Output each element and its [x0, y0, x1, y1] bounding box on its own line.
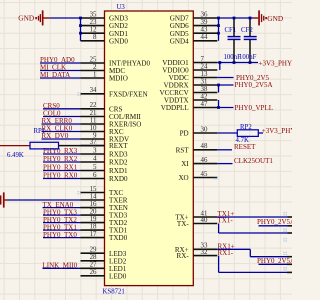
svg-text:12: 12 [90, 27, 97, 34]
ground symbol top-left [35, 10, 49, 25]
svg-text:XO: XO [178, 174, 188, 182]
pin 23 (GND2) left [81, 19, 129, 30]
svg-text:LED0: LED0 [109, 272, 127, 280]
wire RX+ + net label RX1+ [217, 242, 292, 256]
wire VCCRCV tie vertical [217, 84, 220, 93]
pin 35 (GND3) left [81, 11, 129, 22]
wire PD to RP2 [217, 132, 237, 134]
svg-text:38: 38 [201, 86, 208, 93]
svg-text:PHY0_RX0: PHY0_RX0 [43, 172, 78, 180]
wire TX+ + net label TX1+ [217, 210, 292, 218]
wire + net label PHY0_RX3 [43, 147, 81, 155]
pin 33 (RX+) right [175, 243, 217, 254]
svg-text:7: 7 [201, 56, 205, 63]
wire GND to pin 35 [50, 17, 81, 19]
wire GND vertical bus right [218, 18, 220, 41]
svg-text:11: 11 [90, 117, 97, 124]
svg-text:RP2: RP2 [240, 124, 252, 131]
svg-text:48: 48 [201, 143, 208, 150]
wire +3V3_PHY rail (pin 7) [217, 62, 258, 64]
wire XI + net label CLK25OUT1 [217, 157, 273, 165]
svg-text:RX_DV0: RX_DV0 [42, 132, 69, 140]
svg-text:29: 29 [90, 247, 97, 254]
junction dots GND bus right [217, 17, 220, 35]
pin 10 (RXC) left [81, 125, 124, 136]
svg-text:CF1: CF1 [225, 27, 237, 34]
wire + net label CRS0 [43, 102, 81, 110]
IC U3 body (KS8721 PHY) [105, 11, 194, 286]
svg-text:13: 13 [201, 71, 208, 78]
svg-text:45: 45 [201, 171, 208, 178]
svg-text:100nF: 100nF [239, 54, 257, 61]
svg-text:GND: GND [267, 14, 283, 23]
svg-text:24: 24 [201, 63, 208, 70]
wire + net label PHY0_RX1 [43, 164, 81, 172]
wire VDDC + net label PHY0_2V5 [217, 74, 269, 82]
svg-text:+3V3_PHY: +3V3_PHY [259, 60, 293, 68]
power port GND top-left text [18, 13, 34, 22]
svg-text:FXSD/FXEN: FXSD/FXEN [109, 90, 148, 98]
pin 36 (GND7) right [170, 11, 218, 22]
svg-text:RXD1: RXD1 [109, 167, 128, 175]
svg-text:40: 40 [201, 217, 208, 224]
wire + net label RX_ERR0 [42, 117, 81, 125]
dotted hotspot marks (decorative endpoints) [78, 92, 287, 270]
wire RST + net label RESET [217, 143, 256, 151]
svg-text:PHY0_2V5A: PHY0_2V5A [257, 218, 292, 226]
wire + net label RX_DV0 [42, 132, 81, 140]
svg-text:36: 36 [201, 11, 208, 18]
junction dots caps on GND wire [233, 17, 252, 20]
pin 4 (RXD2) left [81, 155, 128, 166]
svg-text:6: 6 [93, 172, 97, 179]
svg-text:42: 42 [201, 93, 208, 100]
wire + net label MI_DATA [40, 71, 81, 79]
wire left edge to RP1 [0, 145, 30, 147]
part label KS8721 [103, 289, 125, 296]
svg-text:PHY0_RX1: PHY0_RX1 [43, 164, 78, 172]
svg-text:4: 4 [93, 155, 97, 162]
pin 43 (GND5) right [170, 27, 218, 38]
svg-text:10: 10 [90, 125, 97, 132]
svg-text:VDDPLL: VDDPLL [161, 104, 189, 112]
svg-text:PHY0_2V5A: PHY0_2V5A [235, 81, 273, 89]
pin 9 (RXDV) left [81, 132, 130, 143]
wire VDDPLL + net label PHY0_VPLL [217, 104, 273, 112]
power port GND top-right text [267, 14, 283, 23]
pin 30 (PD) right [180, 126, 218, 137]
svg-text:1: 1 [93, 71, 97, 78]
pin 47 (VDDPLL) right [161, 101, 218, 112]
svg-text:16: 16 [90, 201, 97, 208]
power net label +3V3_PHY right [262, 127, 296, 135]
svg-text:CF2: CF2 [241, 27, 253, 34]
svg-text:RXD0: RXD0 [109, 175, 128, 183]
pin 15 (TXC) left [81, 186, 124, 197]
wire RP1 to pin 37 [59, 145, 105, 147]
svg-text:TX1-: TX1- [218, 217, 234, 225]
svg-text:22: 22 [90, 102, 97, 109]
wire TX- + net label TX1- [218, 217, 293, 233]
svg-text:23: 23 [90, 19, 97, 26]
svg-text:PD: PD [180, 130, 189, 138]
svg-text:21: 21 [90, 110, 97, 117]
power net label +3V3_PHY [259, 60, 293, 68]
svg-text:25: 25 [90, 56, 97, 63]
wire + net label PHY0_TX2 [43, 216, 81, 224]
pin 16 (TXEN) left [81, 201, 128, 212]
wire RP2 to +3V3_PH [258, 132, 263, 134]
svg-text:GND0: GND0 [109, 37, 128, 45]
pin 26 (LED0) left [81, 269, 127, 280]
wire + net label MI_CLK [40, 64, 81, 72]
wire + net label PHY0_2V5A (TX centre tap) [257, 218, 295, 226]
value labels 100nF 100nF [224, 54, 257, 61]
pin 6 (RXD0) left [81, 172, 128, 183]
pin 38 (VCCRCV) right [160, 86, 218, 97]
pin 45 (XO) right [178, 171, 217, 182]
pin 31 (VDDRX) right [163, 78, 217, 89]
pin 19 (TXD2) left [81, 216, 128, 227]
pin 11 (RXER/ISO) left [81, 117, 142, 128]
pin 34 (FXSD/FXEN) left [81, 87, 148, 98]
wire GND right horizontal [217, 17, 253, 19]
pin 22 (CRS) left [81, 102, 123, 113]
svg-text:43: 43 [201, 27, 208, 34]
svg-text:LINK_MII0: LINK_MII0 [43, 262, 78, 270]
wire + net label RX_CLK0 [42, 125, 81, 133]
pin 46 (XI) right [181, 157, 217, 168]
pin 14 (TXER) left [81, 193, 128, 204]
capacitor CF2 [241, 18, 257, 63]
svg-text:KS8721: KS8721 [103, 289, 125, 296]
wire + net label PHY0_RX0 [43, 172, 81, 180]
svg-text:PHY0_VPLL: PHY0_VPLL [235, 104, 274, 112]
svg-text:RX1-: RX1- [218, 249, 234, 257]
svg-text:TXD0: TXD0 [109, 234, 128, 242]
pin 7 (VDDIO1) right [162, 56, 217, 67]
pin 2 (MDC) left [81, 64, 126, 75]
svg-text:20: 20 [90, 209, 97, 216]
svg-text:2: 2 [93, 64, 97, 71]
svg-text:30: 30 [201, 126, 208, 133]
resistor RP1 [7, 128, 59, 159]
svg-text:32: 32 [201, 249, 208, 256]
svg-text:PHY0_RX2: PHY0_RX2 [43, 155, 78, 163]
svg-text:RXD3: RXD3 [109, 151, 128, 159]
capacitor CF1 [225, 18, 241, 63]
svg-text:14: 14 [90, 193, 97, 200]
junction dots GND bus left [79, 17, 82, 35]
svg-text:CLK25OUT1: CLK25OUT1 [234, 157, 273, 165]
svg-text:3: 3 [93, 147, 97, 154]
svg-text:XI: XI [181, 160, 189, 168]
svg-text:RP1: RP1 [34, 128, 46, 135]
pin 12 (GND1) left [81, 27, 129, 38]
pin 28 (LED2) left [81, 254, 127, 265]
pin 17 (TXD0) left [81, 231, 128, 242]
wire VDDRX + net label PHY0_2V5A [217, 81, 272, 89]
svg-text:18: 18 [90, 224, 97, 231]
wire + net label PHY0_TX1 [43, 223, 81, 231]
pin 42 (VDDTX) right [164, 93, 217, 104]
svg-text:+3V3_PHY: +3V3_PHY [262, 127, 292, 135]
svg-text:RXD2: RXD2 [109, 159, 128, 167]
ground symbol left edge (TXER) [0, 192, 8, 207]
resistor RP2 [236, 124, 259, 144]
pin 18 (TXD1) left [81, 224, 128, 235]
svg-text:26: 26 [90, 269, 97, 276]
svg-text:35: 35 [90, 11, 97, 18]
pin 27 (LED1) left [81, 262, 127, 273]
pin 8 (GND0) left [81, 34, 129, 45]
pin 20 (TXD3) left [81, 209, 128, 220]
svg-text:PHY0_TX0: PHY0_TX0 [43, 231, 77, 239]
svg-text:GND: GND [18, 13, 34, 22]
svg-text:8: 8 [93, 34, 97, 41]
pin 40 (TX-) right [177, 217, 217, 228]
svg-text:27: 27 [90, 262, 97, 269]
svg-text:REXT: REXT [109, 142, 128, 150]
wire VDDIO0 tie vertical [218, 61, 221, 70]
pin 29 (LED3) left [81, 247, 127, 258]
pin 25 (INT/PHYAD0) left [81, 56, 151, 67]
svg-text:34: 34 [90, 87, 97, 94]
ground symbol top-right [254, 10, 267, 25]
pin 39 (GND6) right [170, 19, 218, 30]
pin 13 (VDDC) right [169, 71, 218, 82]
svg-text:44: 44 [201, 34, 208, 41]
wire ground to pin 14 TXER [8, 199, 81, 201]
svg-text:RX-: RX- [176, 252, 189, 260]
pin 24 (VDDIO0) right [162, 63, 217, 74]
wire + net label LINK_MII0 [43, 262, 81, 270]
svg-text:PHY0_2V5A: PHY0_2V5A [257, 257, 292, 265]
wire + net label PHY0_2V5A (RX centre tap) [257, 257, 295, 265]
wire + net label COL0 [43, 110, 81, 118]
svg-text:RST: RST [176, 146, 190, 154]
pin 21 (COL/RMII) left [81, 110, 142, 121]
wire + net label PHY0_RX2 [43, 155, 81, 163]
svg-text:RESET: RESET [234, 143, 256, 151]
svg-text:19: 19 [90, 216, 97, 223]
junction dots caps on 3V3 rail [233, 61, 252, 64]
wire + net label PHY0_AD0 [40, 56, 81, 64]
svg-text:5: 5 [93, 164, 97, 171]
svg-text:39: 39 [201, 19, 208, 26]
wire + net label PHY0_TX0 [43, 231, 81, 239]
svg-text:MI_DATA: MI_DATA [40, 71, 70, 79]
svg-text:15: 15 [90, 186, 97, 193]
pin 32 (RX-) right [176, 249, 217, 260]
pin 44 (GND4) right [170, 34, 218, 45]
designator U3 [117, 4, 126, 11]
pin 1 (MDIO) left [81, 71, 128, 82]
svg-text:6.49K: 6.49K [7, 152, 24, 159]
wire + net label TX_ENA0 [43, 201, 81, 209]
pin 48 (RST) right [176, 143, 218, 154]
pin 41 (TX+) right [175, 210, 217, 221]
wire VDDTX tie vertical [217, 100, 220, 109]
svg-text:U3: U3 [117, 4, 126, 11]
svg-text:TX-: TX- [177, 220, 189, 228]
wire GND vertical bus left [80, 18, 82, 41]
wire + net label PHY0_TX3 [43, 208, 81, 216]
svg-text:47: 47 [201, 101, 208, 108]
svg-text:GND4: GND4 [170, 37, 189, 45]
pin 37 (REXT) left [81, 139, 129, 150]
pin 5 (RXD1) left [81, 164, 128, 175]
svg-text:31: 31 [201, 78, 208, 85]
svg-text:MDIO: MDIO [109, 75, 128, 83]
wire RX- + net label RX1- [218, 249, 293, 273]
svg-text:28: 28 [90, 254, 97, 261]
pin 3 (RXD3) left [81, 147, 128, 158]
svg-text:17: 17 [90, 231, 97, 238]
svg-text:46: 46 [201, 157, 208, 164]
